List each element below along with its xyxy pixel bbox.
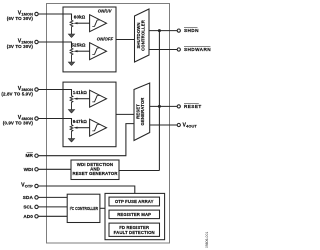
wire I2C to register block [100, 207, 105, 209]
wire SDA [38, 196, 67, 198]
svg-text:ON/OFF: ON/OFF [97, 37, 114, 42]
svg-text:947kΩ: 947kΩ [73, 119, 88, 124]
pin SHDWARN wire [149, 49, 177, 51]
svg-text:V4OUT: V4OUT [183, 122, 198, 128]
OTP fuse array box [109, 197, 160, 206]
WDI detection box [71, 160, 119, 180]
svg-text:VOTP: VOTP [21, 183, 33, 189]
resistor 525k [70, 48, 73, 62]
svg-text:I²C CONTROLLER: I²C CONTROLLER [70, 206, 99, 211]
resistor 141k [70, 96, 73, 110]
pin V2MON [35, 40, 38, 43]
svg-text:RESET: RESET [184, 104, 202, 109]
svg-text:60kΩ: 60kΩ [74, 14, 86, 19]
tap arrow wire (cell 2) [77, 50, 90, 52]
wire V3MON to divider [38, 90, 71, 96]
tap arrow wire (cell 3) [77, 98, 90, 100]
svg-text:09806-001: 09806-001 [205, 232, 209, 248]
ground (cell 4) [68, 139, 74, 143]
tap arrow wire (cell 1) [77, 22, 90, 24]
chip outer boundary [47, 4, 170, 244]
svg-text:(6V TO 30V): (6V TO 30V) [7, 16, 34, 21]
pin V4OUT wire [150, 124, 177, 126]
wire WDI box output [119, 170, 159, 172]
svg-text:WDI: WDI [24, 167, 33, 172]
pin SHDN wire [149, 30, 177, 32]
shutdown controller block [135, 9, 150, 62]
wire VOTP to OTP array [38, 186, 135, 193]
pin V1MON [35, 12, 38, 15]
svg-text:REGISTER MAP: REGISTER MAP [117, 212, 151, 217]
comparator section box 2 [63, 82, 116, 147]
hysteresis symbol 1 [92, 20, 99, 26]
reset generator block [134, 83, 150, 141]
svg-text:(2.8V TO 5.9V): (2.8V TO 5.9V) [1, 91, 33, 96]
resistor 60k [70, 20, 73, 34]
wire V2MON to divider [38, 42, 71, 48]
wire AD0 [38, 215, 67, 217]
wire V1MON to divider [38, 14, 71, 20]
wire MR to reset generator [38, 124, 134, 156]
resistor 947k [70, 125, 73, 139]
svg-text:ON/UV: ON/UV [98, 9, 113, 14]
svg-text:OTP FUSE ARRAY: OTP FUSE ARRAY [115, 199, 154, 204]
svg-text:SHDWARN: SHDWARN [184, 47, 211, 52]
pin SCL [35, 205, 38, 208]
hysteresis symbol 4 [92, 124, 99, 130]
hysteresis symbol 3 [92, 96, 99, 102]
svg-text:SCL: SCL [23, 204, 33, 209]
pin MR [35, 154, 38, 157]
wire section2 to reset generator [116, 113, 134, 115]
junction dot SHDN net [158, 29, 161, 32]
OTP/register section box [105, 193, 165, 239]
svg-text:AD0: AD0 [23, 214, 33, 219]
comparator 1 [90, 15, 107, 32]
pin SDA [35, 196, 38, 199]
comparator 2 [90, 43, 107, 60]
pin AD0 [35, 215, 38, 218]
svg-text:RESET GENERATOR: RESET GENERATOR [72, 171, 118, 176]
svg-text:SHDN: SHDN [184, 28, 199, 33]
comparator 3 [90, 90, 107, 107]
ground (cell 3) [68, 110, 74, 114]
svg-text:SDA: SDA [23, 195, 34, 200]
wire SCL [38, 206, 67, 208]
svg-text:141kΩ: 141kΩ [73, 90, 88, 95]
register map box [109, 210, 160, 219]
fault detection box [109, 223, 160, 236]
pin VOTP [35, 184, 38, 187]
hysteresis symbol 2 [92, 48, 99, 54]
tap arrow wire (cell 4) [77, 127, 90, 129]
comparator section box 1 [63, 7, 116, 72]
wire V4MON to divider [38, 119, 71, 125]
pin V3MON [35, 88, 38, 91]
pin RESET wire [150, 105, 177, 107]
vertical net wire SHDN/RESET to WDI generator [158, 31, 160, 171]
svg-text:(3V TO 30V): (3V TO 30V) [7, 44, 34, 49]
svg-text:525kΩ: 525kΩ [71, 42, 86, 47]
pin WDI [35, 168, 38, 171]
wire WDI [38, 168, 71, 170]
wire section1 to shutdown controller [116, 39, 135, 41]
ground (cell 2) [68, 62, 74, 66]
svg-text:CONTROLLER: CONTROLLER [141, 19, 146, 51]
svg-text:FAULT DETECTION: FAULT DETECTION [114, 230, 155, 235]
svg-text:(0.9V TO 30V): (0.9V TO 30V) [3, 120, 34, 125]
svg-text:MR: MR [26, 153, 34, 158]
I2C controller box [67, 194, 100, 222]
svg-text:GENERATOR: GENERATOR [140, 97, 145, 126]
ground (cell 1) [68, 34, 74, 38]
pin V4MON [35, 117, 38, 120]
junction dot RESET net [158, 105, 161, 108]
comparator 4 [90, 119, 107, 136]
